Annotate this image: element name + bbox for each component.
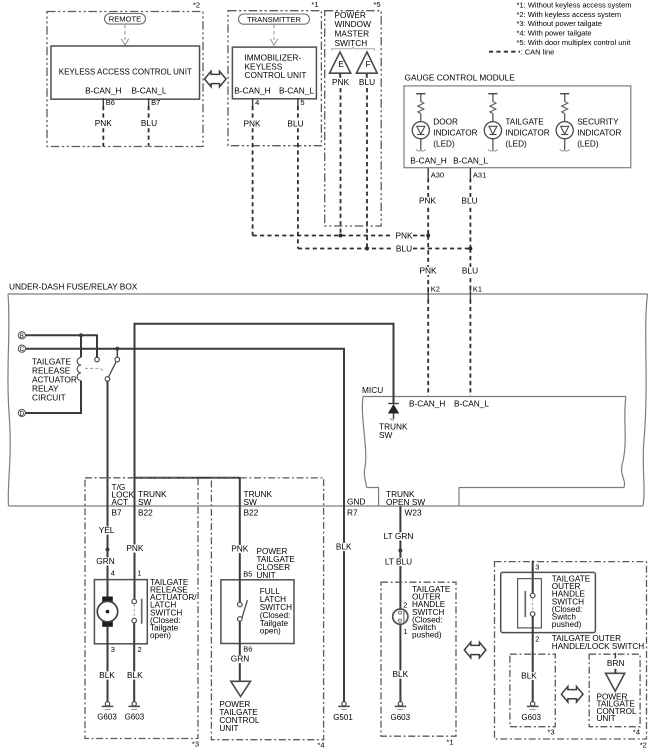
svg-text:YEL: YEL xyxy=(99,525,115,535)
terminal B xyxy=(18,332,25,339)
pin A30 xyxy=(427,168,429,178)
svg-text:BLU: BLU xyxy=(461,196,477,206)
svg-text:A30: A30 xyxy=(431,170,444,179)
svg-text:CIRCUIT: CIRCUIT xyxy=(32,393,66,403)
svg-text:BLK: BLK xyxy=(99,670,115,680)
svg-text:2: 2 xyxy=(403,601,407,610)
svg-text:B7: B7 xyxy=(151,98,160,107)
relay actuation dashed link xyxy=(85,368,103,371)
brace over connectors E F xyxy=(332,47,375,50)
svg-text:K1: K1 xyxy=(473,285,482,294)
dashed arrow from TRANSMITTER xyxy=(273,25,275,40)
trunk sw wire loop xyxy=(135,324,394,602)
pin 4 xyxy=(252,98,254,107)
keyless access control unit U-keyless xyxy=(51,46,200,99)
svg-text:TRANSMITTER: TRANSMITTER xyxy=(247,15,302,24)
tailgate outer handle switch (push) xyxy=(393,609,408,624)
wire E PNK (CAN) xyxy=(340,88,342,236)
svg-text:2: 2 xyxy=(535,635,539,644)
TRANSMITTER oval xyxy=(239,14,310,24)
svg-text:4: 4 xyxy=(255,98,259,107)
pin B7 xyxy=(148,98,150,107)
svg-text:KEYLESS ACCESS CONTROL UNIT: KEYLESS ACCESS CONTROL UNIT xyxy=(59,68,192,77)
svg-text:*4: *4 xyxy=(317,741,324,750)
svg-text:PNK: PNK xyxy=(332,77,350,87)
svg-text:ACT: ACT xyxy=(112,497,129,507)
junction dot PNK/A30 xyxy=(426,234,430,238)
tailgate release actuator/latch switch box xyxy=(94,580,147,644)
relay coil xyxy=(80,335,82,357)
REMOTE oval xyxy=(105,14,146,25)
relay switch arm xyxy=(109,362,117,377)
svg-text:SW: SW xyxy=(379,430,393,440)
svg-text:BLK: BLK xyxy=(127,670,143,680)
wire K2 to MICU (CAN) xyxy=(427,300,429,397)
svg-text:D: D xyxy=(20,411,25,418)
option box *2 (outer handle/lock switch section) xyxy=(495,562,647,739)
splice dot xyxy=(398,549,402,553)
svg-text:PNK: PNK xyxy=(126,543,144,553)
full latch switch xyxy=(239,580,241,602)
svg-text:C: C xyxy=(20,346,25,353)
svg-text:3: 3 xyxy=(111,645,115,654)
svg-text:PNK: PNK xyxy=(395,231,413,241)
resistor + security indicator LED xyxy=(560,93,569,95)
svg-text:1: 1 xyxy=(137,569,141,578)
svg-text:G603: G603 xyxy=(521,713,541,722)
wire pin5 BLU (CAN) down to BLU bus xyxy=(297,106,299,249)
svg-text:SECURITY: SECURITY xyxy=(577,117,619,126)
svg-text:pushed): pushed) xyxy=(412,631,442,640)
connector triangle F xyxy=(356,52,377,73)
wire latch to ground BLK xyxy=(133,623,135,702)
wire R7 GND BLK xyxy=(343,506,345,702)
svg-text:*3: *3 xyxy=(192,740,199,749)
latch switch contacts xyxy=(134,580,136,600)
svg-text:GND: GND xyxy=(347,497,365,507)
ground G603 (actuator) xyxy=(105,702,109,706)
option box *4 (power tailgate control unit) xyxy=(589,654,640,727)
svg-text:INDICATOR: INDICATOR xyxy=(505,128,549,137)
junction dot BLU/A31 xyxy=(468,247,472,251)
svg-text:BLU: BLU xyxy=(359,77,375,87)
pin A31 xyxy=(469,168,471,178)
svg-text:BLU: BLU xyxy=(141,118,157,128)
svg-text:*5: *5 xyxy=(373,0,380,9)
wire B6 PNK (CAN) xyxy=(102,106,104,147)
splice dot xyxy=(106,548,110,552)
svg-text:*3: Without power tailgate: *3: Without power tailgate xyxy=(517,19,602,28)
option box *3 (tailgate release actuator) xyxy=(85,478,198,739)
svg-text:SWITCH: SWITCH xyxy=(335,38,368,48)
svg-text:MICU: MICU xyxy=(362,385,383,395)
pin B6 xyxy=(102,98,104,107)
svg-text:UNIT: UNIT xyxy=(597,714,616,723)
svg-text:B-CAN_L: B-CAN_L xyxy=(279,86,314,96)
wire pin4 PNK (CAN) down to PNK bus xyxy=(252,106,254,236)
wire A30 PNK (CAN) xyxy=(427,178,429,235)
option box *2 (keyless access section) xyxy=(47,12,203,147)
svg-text:PNK: PNK xyxy=(419,196,437,206)
legend CAN line sample xyxy=(489,51,520,53)
wire A31 BLU (CAN) xyxy=(469,178,471,248)
svg-text:PNK: PNK xyxy=(419,266,437,276)
svg-text:K2: K2 xyxy=(431,285,440,294)
svg-text:1: 1 xyxy=(403,627,407,636)
svg-text:F: F xyxy=(365,59,370,69)
svg-text:*5: With door multiplex contro: *5: With door multiplex control unit xyxy=(517,38,632,47)
svg-text:B-CAN_H: B-CAN_H xyxy=(410,156,446,166)
ground G603 (handle/lock switch) xyxy=(531,702,535,706)
wire label PNK on TRUNK SW B22 wire xyxy=(127,544,142,552)
svg-text:CONTROL UNIT: CONTROL UNIT xyxy=(245,70,307,80)
svg-text:G603: G603 xyxy=(125,713,145,722)
pin K2 xyxy=(427,289,429,300)
terminal C xyxy=(18,345,25,352)
svg-text:G603: G603 xyxy=(391,713,411,722)
svg-text:GAUGE CONTROL MODULE: GAUGE CONTROL MODULE xyxy=(405,73,516,83)
svg-text:E: E xyxy=(338,59,344,69)
svg-text:PNK: PNK xyxy=(243,119,261,129)
svg-text:INDICATOR: INDICATOR xyxy=(433,128,477,137)
tailgate outer handle/lock switch unit box xyxy=(501,572,596,632)
junction dot B/coil xyxy=(79,333,83,337)
ground G603 (latch) xyxy=(132,702,136,706)
svg-text:*4: *4 xyxy=(633,728,640,737)
svg-text:BRN: BRN xyxy=(607,658,625,668)
svg-text:B-CAN_H: B-CAN_H xyxy=(85,86,121,96)
pin W23 tick xyxy=(399,506,401,512)
svg-text:BLU: BLU xyxy=(287,119,303,129)
junction dot BLU/F xyxy=(365,247,369,251)
terminal D xyxy=(18,409,25,416)
svg-text:B-CAN_H: B-CAN_H xyxy=(409,399,445,409)
wire from C to GND drop xyxy=(26,349,345,506)
svg-text:B5: B5 xyxy=(243,570,252,579)
svg-text:B-CAN_L: B-CAN_L xyxy=(453,156,488,166)
connector arrow between *3 and *4 xyxy=(561,686,583,702)
svg-text:G501: G501 xyxy=(333,713,353,722)
svg-text:B6: B6 xyxy=(243,645,252,654)
outer handle switch contacts xyxy=(530,593,535,598)
PNK CAN bus xyxy=(253,235,393,237)
wire F BLU (CAN) xyxy=(366,88,368,249)
svg-text:BLK: BLK xyxy=(336,542,352,552)
svg-text:*2: *2 xyxy=(640,740,647,749)
wire to ground BLK xyxy=(399,624,401,702)
svg-text:UNIT: UNIT xyxy=(257,571,276,580)
option box *4 (power tailgate closer unit) xyxy=(211,478,323,740)
off-page arrow to power tailgate control unit xyxy=(231,681,251,696)
branch to second TRUNK SW pin B22 xyxy=(135,478,240,580)
svg-text:LT BLU: LT BLU xyxy=(385,557,412,567)
svg-text:*1: Without keyless access sys: *1: Without keyless access system xyxy=(517,0,632,9)
svg-text:open): open) xyxy=(150,631,171,640)
svg-text:BLK: BLK xyxy=(392,669,408,679)
connector arrow between *2 and *1 xyxy=(205,71,227,87)
svg-text:B6: B6 xyxy=(106,98,115,107)
svg-text:BLK: BLK xyxy=(521,671,537,681)
svg-text:BLU: BLU xyxy=(396,244,412,254)
wire K1 to MICU (CAN) xyxy=(469,300,471,397)
junction dot PNK/E xyxy=(339,234,343,238)
svg-text:B7: B7 xyxy=(112,507,123,517)
svg-text:*1: *1 xyxy=(311,0,318,9)
connector arrow between *1 and *2 sections xyxy=(464,642,486,658)
actuator motor M xyxy=(102,597,113,603)
svg-text:LT GRN: LT GRN xyxy=(384,531,414,541)
svg-text:4: 4 xyxy=(111,569,115,578)
relay contact from C xyxy=(116,351,118,358)
wire B7 BLU (CAN) xyxy=(148,106,150,147)
wire BLU bus down to K1 (CAN) xyxy=(469,249,471,295)
svg-text:B-CAN_L: B-CAN_L xyxy=(454,399,489,409)
svg-text:G603: G603 xyxy=(97,713,117,722)
svg-text:GRN: GRN xyxy=(231,654,249,664)
svg-text:5: 5 xyxy=(300,98,304,107)
option box *1 (immobilizer section) xyxy=(228,11,321,146)
svg-text:*3: *3 xyxy=(547,728,554,737)
svg-text:UNIT: UNIT xyxy=(219,724,238,733)
svg-text:SW: SW xyxy=(138,497,152,507)
svg-text:*2: With keyless access system: *2: With keyless access system xyxy=(517,10,622,19)
svg-text:TAILGATE: TAILGATE xyxy=(505,117,544,126)
pin 5 xyxy=(297,98,299,107)
svg-text:: CAN line: : CAN line xyxy=(521,47,555,56)
svg-text:open): open) xyxy=(260,627,281,636)
wire from D to coil xyxy=(26,381,82,413)
svg-text:PNK: PNK xyxy=(95,118,113,128)
ground G603 (outer handle switch) xyxy=(398,702,402,706)
wire B7 YEL/GRN xyxy=(99,526,114,534)
svg-text:R7: R7 xyxy=(347,507,358,517)
svg-text:3: 3 xyxy=(535,563,539,572)
svg-text:INDICATOR: INDICATOR xyxy=(577,128,621,137)
svg-text:B22: B22 xyxy=(138,507,153,517)
resistor + door indicator LED xyxy=(416,93,425,95)
pin K1 xyxy=(469,289,471,300)
wire W23 LT GRN / LT BLU xyxy=(399,506,401,609)
wire from B xyxy=(26,335,98,357)
svg-text:W23: W23 xyxy=(405,507,422,517)
svg-text:*4: With power tailgate: *4: With power tailgate xyxy=(517,29,592,38)
svg-text:B-CAN_H: B-CAN_H xyxy=(234,86,270,96)
wire pin 3 xyxy=(532,561,534,594)
svg-text:GRN: GRN xyxy=(96,556,114,566)
svg-text:A31: A31 xyxy=(473,170,486,179)
wire PNK bus down to K2 (CAN) xyxy=(427,236,429,295)
svg-text:DOOR: DOOR xyxy=(433,117,458,126)
svg-text:(LED): (LED) xyxy=(505,139,527,148)
power tailgate closer unit box xyxy=(221,580,294,644)
option box *5 (power window master switch) xyxy=(325,11,382,226)
svg-text:(LED): (LED) xyxy=(577,139,599,148)
svg-text:UNDER-DASH FUSE/RELAY BOX: UNDER-DASH FUSE/RELAY BOX xyxy=(9,282,138,292)
svg-text:B-CAN_L: B-CAN_L xyxy=(131,86,166,96)
relay contact from B xyxy=(95,357,100,362)
svg-text:OPEN SW: OPEN SW xyxy=(386,497,425,507)
svg-text:*2: *2 xyxy=(193,1,200,10)
immobilizer-keyless control unit xyxy=(232,47,316,99)
svg-text:(LED): (LED) xyxy=(433,139,455,148)
svg-text:B: B xyxy=(20,333,24,340)
resistor + tailgate indicator LED xyxy=(488,93,497,95)
off-page arrow power tailgate control unit xyxy=(606,673,625,691)
svg-text:PNK: PNK xyxy=(231,544,249,554)
option box *1 (tailgate outer handle switch) xyxy=(381,582,456,736)
junction dot C/contact xyxy=(115,347,119,351)
svg-text:HANDLE/LOCK SWITCH: HANDLE/LOCK SWITCH xyxy=(552,642,644,651)
ground G501 xyxy=(342,702,346,706)
svg-text:BLU: BLU xyxy=(462,266,478,276)
svg-text:*1: *1 xyxy=(446,737,453,746)
connector triangle E xyxy=(330,52,351,73)
svg-text:SW: SW xyxy=(244,497,258,507)
TRUNK SW input arrow into MICU xyxy=(388,403,399,405)
wire motor to ground BLK xyxy=(107,627,109,702)
wire BRN xyxy=(614,669,616,674)
wire relay arm down to B7 / T\/G LOCK ACT xyxy=(107,381,109,596)
option box *3 (ground path) xyxy=(510,654,555,727)
svg-text:pushed): pushed) xyxy=(552,620,582,629)
dashed arrow from REMOTE xyxy=(124,25,126,40)
svg-text:B22: B22 xyxy=(244,507,259,517)
svg-text:2: 2 xyxy=(138,645,142,654)
BLU CAN bus xyxy=(298,248,393,250)
svg-text:REMOTE: REMOTE xyxy=(109,15,142,24)
